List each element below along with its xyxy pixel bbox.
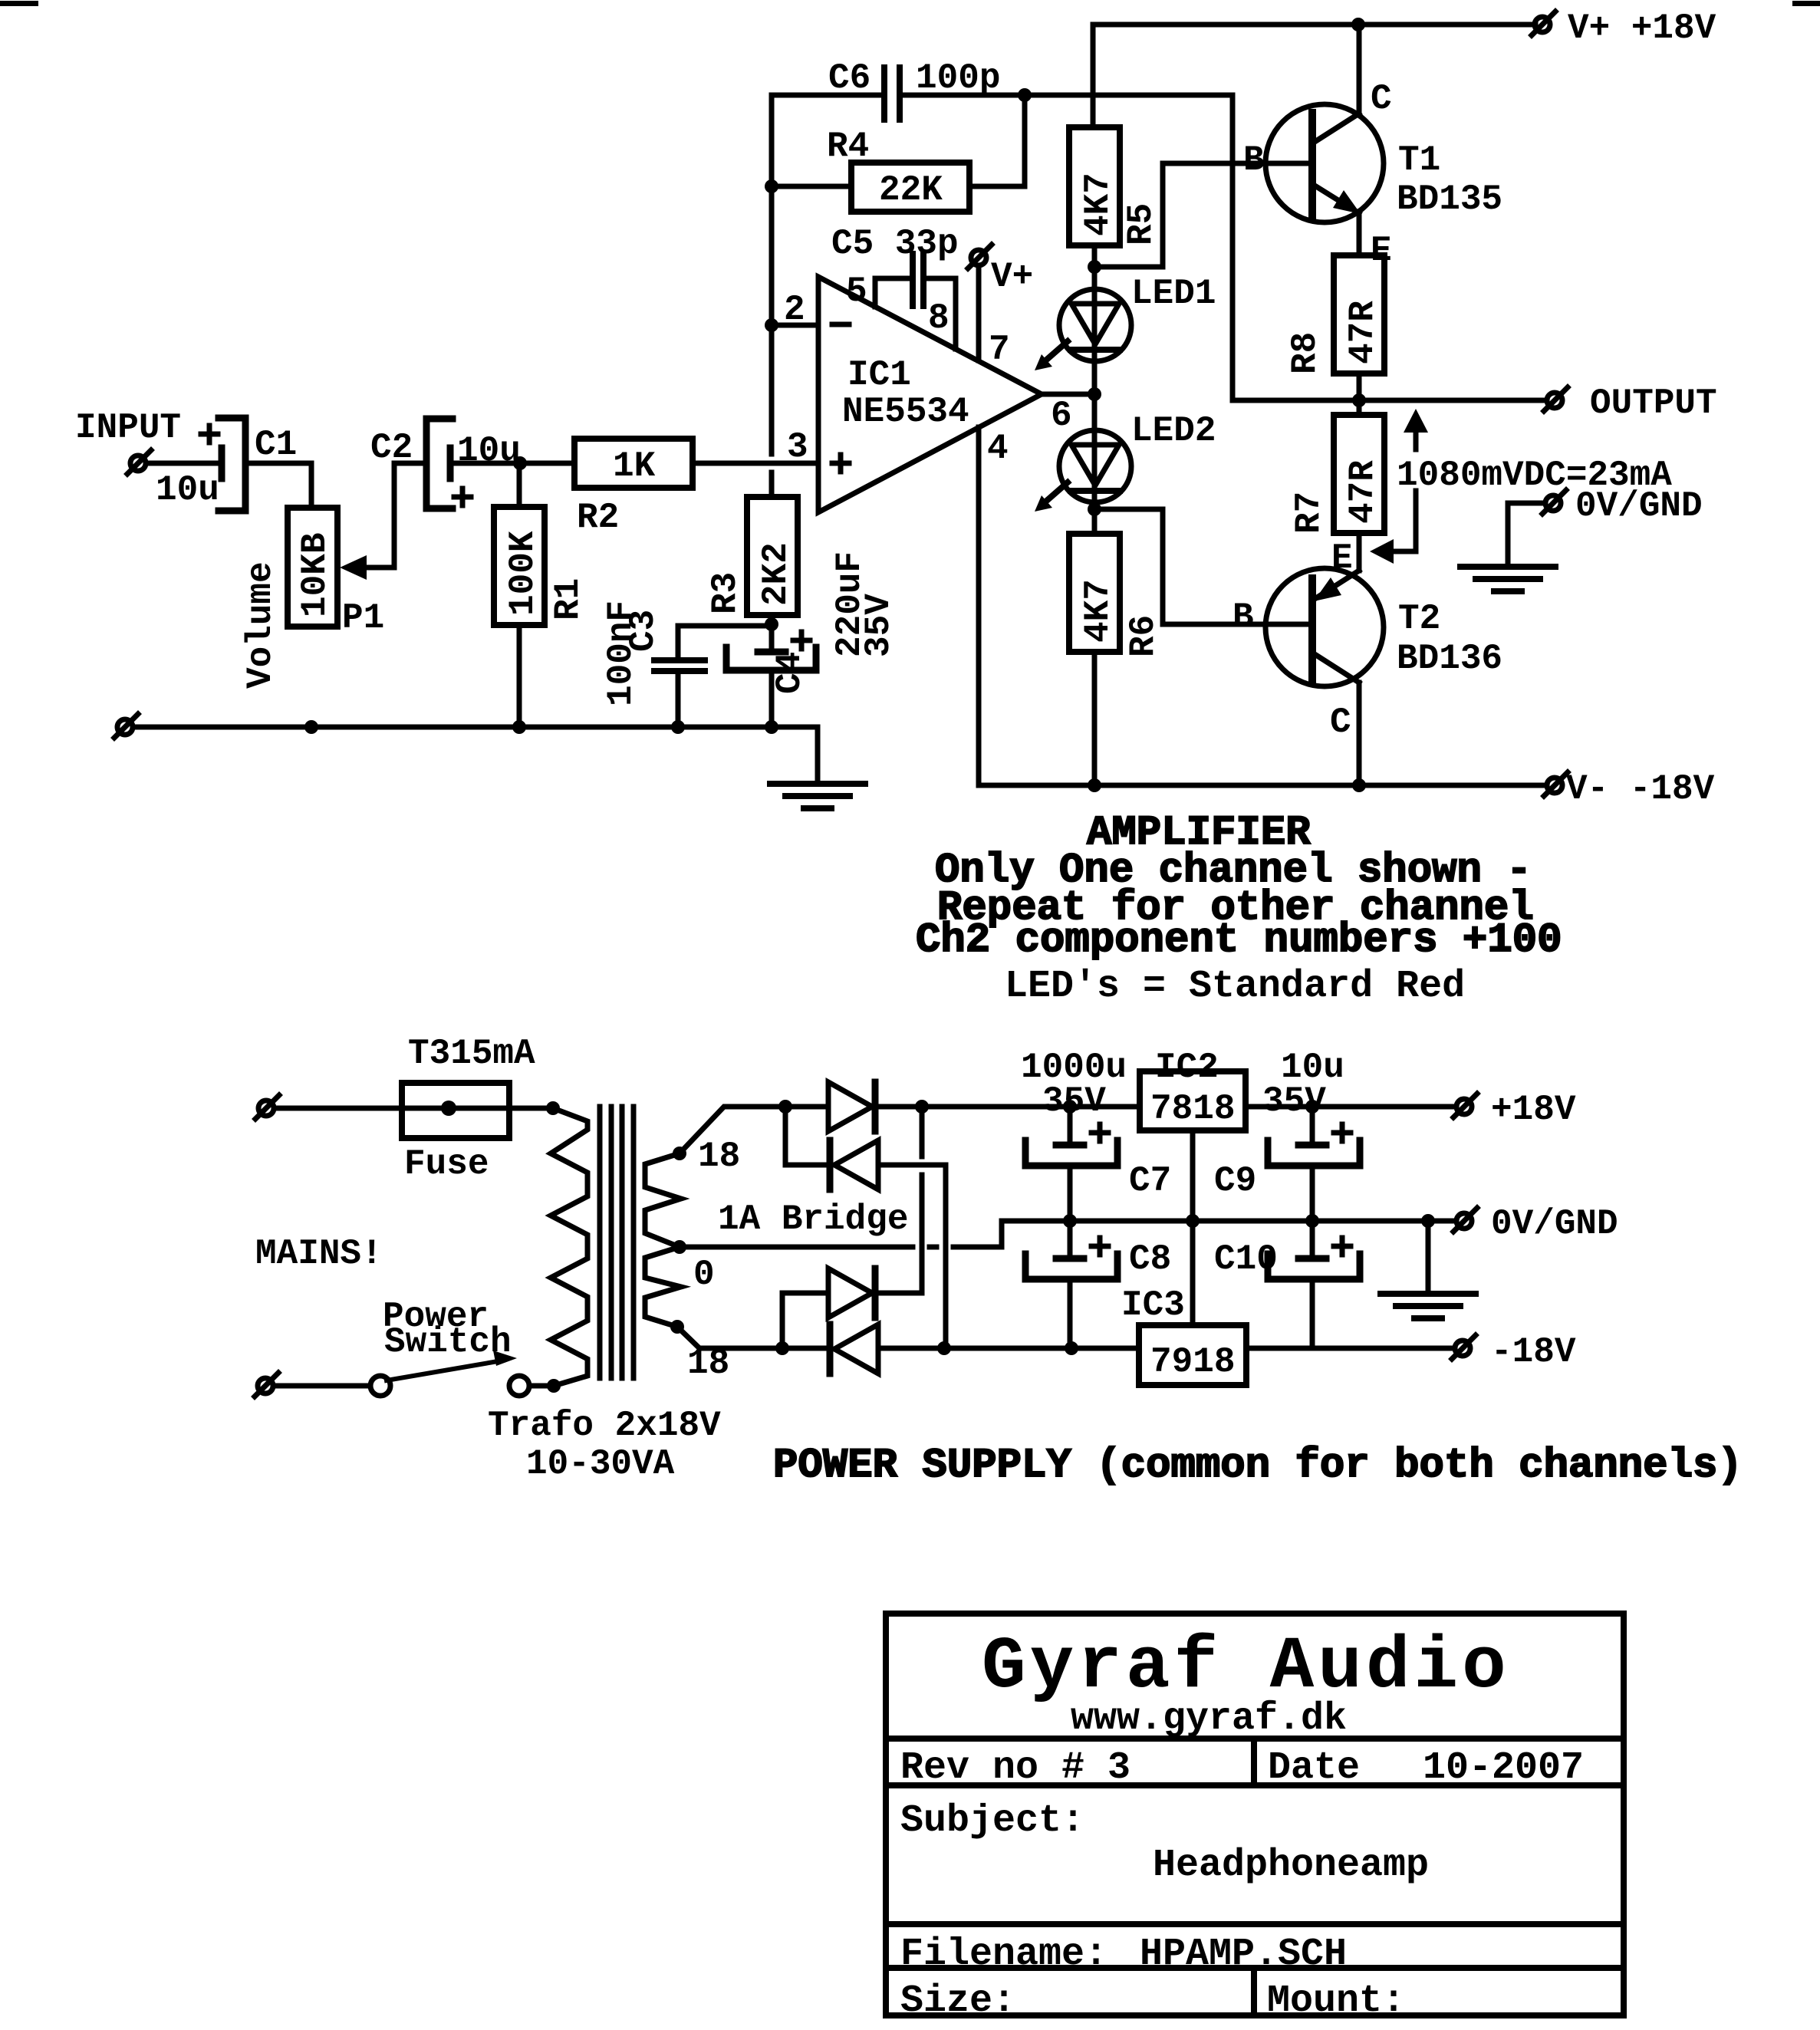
svg-text:100K: 100K [503,531,543,616]
capacitor C3 100nF [654,660,705,671]
resistor R3 2K2 [747,497,798,615]
wire T2 base [1094,509,1312,624]
junction D2 on -18V rail [937,1341,951,1355]
junction AC2 node [775,1341,789,1355]
wire ground rail [133,727,818,784]
transformer secondary winding bottom [645,1247,681,1327]
junction C3 on rail [671,720,685,734]
svg-text:B: B [1233,597,1254,637]
svg-text:Mount:: Mount: [1267,1979,1405,2023]
svg-text:R1: R1 [548,578,588,620]
wire V+ rail top [1093,22,1535,28]
svg-text:C10: C10 [1214,1239,1278,1279]
junction R3/C3/C4 node [765,617,778,631]
svg-text:OUTPUT: OUTPUT [1590,383,1717,423]
svg-text:C3: C3 [624,610,663,652]
svg-text:LED's = Standard Red: LED's = Standard Red [1005,965,1465,1008]
junction secondary 0 centre tap [673,1240,686,1254]
svg-text:10-30VA: 10-30VA [526,1444,675,1484]
wire 0V/GND to ground [1508,503,1545,567]
svg-text:INPUT: INPUT [75,408,181,448]
wire feedback to output node [1025,95,1233,400]
regulator IC2 7818 [1140,1071,1246,1130]
svg-text:R7: R7 [1289,492,1329,534]
junction node A (C2/R1/R2) [513,456,527,470]
junction transformer primary top [546,1101,560,1115]
capacitor C4 220uF (polarized) [726,624,816,727]
svg-text:3: 3 [787,427,808,467]
junction R1 on rail [512,720,526,734]
wire AC2 secondary bottom [677,1327,827,1348]
ground symbol (amp right) [1460,567,1555,591]
wire node to C3 [678,626,772,660]
wire pin 6 output [1042,392,1094,397]
wire P1 wiper to C2 [365,463,426,568]
svg-text:LED1: LED1 [1131,274,1216,314]
terminal mains live [255,1095,279,1119]
svg-text:IC1: IC1 [847,355,911,395]
svg-text:35V: 35V [1042,1081,1106,1121]
wire pin2 node down to R3 (hop over pin3 wire) [769,325,775,497]
junction R6 on V- rail [1088,778,1101,792]
wire D3 row [875,1291,922,1296]
wire +18V rail right [1246,1104,1456,1110]
svg-text:C5 33p: C5 33p [831,224,959,264]
wire feedback vertical (pin2 to R4/C6) [769,95,775,325]
svg-text:18: 18 [698,1137,740,1176]
svg-text:0V/GND: 0V/GND [1575,486,1703,526]
potentiometer P1 10KB [288,508,367,627]
terminal 0V/GND (psu) [1453,1208,1477,1232]
transistor T2 BD136 (PNP) [1265,568,1384,785]
junction T1 collector on V+ rail [1351,18,1365,31]
svg-text:V- -18V: V- -18V [1566,769,1715,809]
svg-text:R6: R6 [1124,615,1163,657]
border crop mark top-left [0,1,38,6]
wire R5 top lead [1091,25,1096,127]
svg-text:Rev no # 3: Rev no # 3 [900,1746,1131,1790]
svg-text:V+: V+ [991,257,1033,297]
svg-text:10-2007: 10-2007 [1423,1746,1584,1790]
wire C1 to P1 top [245,463,311,508]
junction LED2/R6/T2 base node [1088,502,1101,516]
svg-text:NE5534: NE5534 [842,392,969,432]
svg-text:R8: R8 [1285,332,1325,374]
capacitor C1 10u (polarized) [201,418,245,511]
svg-text:Volume: Volume [241,561,281,689]
svg-text:T315mA: T315mA [408,1034,535,1074]
svg-text:T2: T2 [1398,599,1440,639]
resistor R4 22K [851,163,969,212]
junction C9 top [1305,1100,1319,1114]
junction secondary 18 bottom [670,1320,684,1334]
capacitor C10 10u (polarized) [1268,1221,1360,1348]
wire pin 4 to V- rail [976,427,982,785]
wire gnd stem [1426,1221,1431,1294]
terminal 0V/GND (amp) [1542,490,1566,514]
transformer TR1 primary winding [551,1108,587,1386]
junction R4 left [765,179,778,193]
svg-text:BD136: BD136 [1397,639,1502,679]
wire -18V rail left [878,1346,1139,1351]
svg-text:C: C [1330,702,1351,742]
wire R5 bottom lead [1092,245,1098,290]
capacitor C7 1000u (polarized) [1025,1107,1117,1221]
capacitor C8 1000u (polarized) [1025,1221,1117,1348]
svg-text:4: 4 [987,429,1009,469]
svg-text:2: 2 [784,290,805,330]
svg-text:Headphoneamp: Headphoneamp [1153,1844,1429,1887]
svg-text:47R: 47R [1343,301,1383,364]
junction C7/C8 on 0V [1063,1214,1077,1228]
svg-text:www.gyraf.dk: www.gyraf.dk [1071,1697,1347,1741]
resistor R2 1K [574,439,693,488]
svg-text:E: E [1331,538,1353,578]
resistor R5 4K7 [1069,127,1120,245]
ground symbol (input rail) [770,784,865,808]
wire 0V rail [1070,1219,1456,1224]
svg-text:C1: C1 [255,425,297,465]
junction pin2 node [765,318,778,332]
capacitor C6 100p [884,67,900,120]
ground symbol (psu) [1381,1294,1476,1318]
svg-text:1A Bridge: 1A Bridge [718,1199,908,1239]
junction C7 top [1063,1100,1077,1114]
title block row line 2 [886,1782,1624,1788]
junction C8 on -18V rail [1065,1341,1078,1355]
terminal INPUT [127,450,151,474]
wire AC1 secondary top to bridge [680,1107,828,1153]
wire D1 cathode to +raw node [875,1104,1070,1110]
svg-text:1K: 1K [613,446,656,486]
svg-text:MAINS!: MAINS! [255,1234,383,1274]
wire R4 right vertical [1022,95,1028,186]
svg-text:C2: C2 [370,428,413,468]
svg-text:2K2: 2K2 [756,542,796,606]
svg-text:7918: 7918 [1150,1342,1235,1382]
svg-text:Fuse: Fuse [404,1144,489,1184]
svg-text:R5: R5 [1121,203,1161,245]
terminal +18V [1453,1094,1477,1117]
svg-text:7: 7 [989,330,1010,370]
wire pin 2 stub [772,323,818,328]
svg-text:4K7: 4K7 [1078,173,1118,236]
junction C4 on rail [765,720,778,734]
title block divider rev/date [1251,1739,1257,1785]
annotation arrow up (output current) [1404,409,1428,449]
transformer core [600,1107,634,1378]
wire R2 to pin 3 [693,461,818,466]
junction P1 on rail [304,720,318,734]
wire R4 right lead [969,184,1025,189]
wire D3 anode to AC2 [782,1293,828,1348]
svg-text:22K: 22K [879,170,943,210]
terminal V+ (pin 7) [968,245,992,268]
svg-text:R4: R4 [827,127,869,166]
junction +raw node [915,1100,929,1114]
terminal V+ +18V [1532,12,1555,35]
wire switch to primary bottom [529,1383,554,1389]
terminal V- -18V [1544,772,1568,796]
diode D3 [828,1268,875,1318]
svg-text:R2: R2 [577,498,619,538]
resistor R1 100K [494,507,545,625]
junction pin6/LED node [1088,387,1101,401]
svg-text:35V: 35V [1262,1081,1326,1121]
wire regulator ground pins [1190,1130,1196,1325]
svg-text:Date: Date [1268,1746,1360,1790]
wire R3 to C4/C3 node [769,615,775,626]
svg-text:Filename:: Filename: [900,1933,1107,1976]
svg-text:HPAMP.SCH: HPAMP.SCH [1140,1933,1347,1976]
wire T1 base [1094,163,1312,267]
svg-text:C6: C6 [828,58,871,98]
svg-text:100p: 100p [916,58,1000,98]
switch S1 power switch [370,1351,529,1396]
wire R7 to T2 emitter [1357,533,1362,571]
capacitor C2 10u (polarized) [426,419,471,508]
svg-text:35V: 35V [859,594,899,657]
junction secondary 18 top [673,1147,686,1160]
svg-text:Subject:: Subject: [900,1799,1084,1843]
svg-text:6: 6 [1051,396,1072,436]
wire R6 bottom lead [1092,652,1098,785]
wire AC1 down to D2 [785,1107,827,1165]
annotation arrow left (emitter node) [1370,491,1416,564]
wire node A down to R1 [517,463,522,507]
wire +raw vertical to D3 (hop over D2 wire) [920,1107,925,1293]
fuse F1 [402,1083,553,1138]
svg-text:5: 5 [846,271,867,311]
svg-text:C: C [1371,79,1392,119]
wire R8 to output node [1357,373,1362,415]
wire input to C1 [146,461,219,466]
title block row line 3 [886,1921,1624,1927]
svg-text:R3: R3 [706,572,745,614]
svg-text:IC3: IC3 [1121,1285,1185,1325]
svg-text:8: 8 [928,298,949,338]
svg-text:10u: 10u [156,470,219,510]
terminal mains neutral [255,1373,278,1397]
svg-text:0: 0 [693,1255,715,1295]
junction output node [1352,393,1366,407]
svg-text:Gyraf Audio: Gyraf Audio [982,1625,1510,1709]
LED LED1 [1035,289,1131,394]
capacitor C5 33p [875,254,956,349]
wire C3 to ground rail [676,671,681,727]
svg-text:POWER SUPPLY (common for both: POWER SUPPLY (common for both channels) [773,1443,1743,1489]
wire R4 left lead [772,184,851,189]
transformer secondary winding top [645,1153,681,1247]
resistor R6 4K7 [1069,534,1120,652]
terminal input ground [114,714,138,738]
svg-text:4K7: 4K7 [1078,579,1118,643]
diode D4 [830,1324,878,1374]
svg-text:E: E [1371,231,1392,271]
wire mains to switch [273,1383,370,1389]
svg-text:IC2: IC2 [1155,1048,1219,1087]
wire pin 7 [976,265,982,360]
wire mains to fuse [274,1106,402,1111]
svg-text:47R: 47R [1343,460,1383,524]
wire R6 top lead [1092,509,1098,534]
svg-text:0V/GND: 0V/GND [1491,1204,1618,1244]
LED LED2 [1035,394,1131,512]
regulator IC3 7918 [1139,1325,1246,1385]
svg-text:+18V: +18V [1491,1090,1576,1130]
svg-text:P1: P1 [342,598,384,638]
capacitor C9 10u (polarized) [1268,1107,1360,1221]
svg-text:7818: 7818 [1150,1089,1235,1129]
svg-text:Size:: Size: [900,1979,1015,2023]
svg-text:Trafo 2x18V: Trafo 2x18V [488,1406,721,1446]
wire C2 to node A [450,461,574,466]
svg-text:C9: C9 [1214,1161,1256,1201]
wire centre tap to 0V (hops over bridge verticals) [686,1221,1070,1247]
title block row line 1 [886,1736,1624,1742]
svg-text:C7: C7 [1129,1161,1171,1201]
title block frame [886,1614,1624,2015]
transistor T1 BD135 (NPN) [1265,25,1384,255]
terminal OUTPUT [1544,387,1568,411]
svg-text:10KB: 10KB [295,533,335,617]
wire output node to terminal [1233,398,1547,403]
resistor R7 47R [1334,415,1384,533]
junction regulators gnd on 0V [1186,1214,1200,1228]
svg-text:T1: T1 [1398,140,1440,180]
svg-text:-18V: -18V [1491,1332,1576,1372]
svg-text:Ch2 component numbers +100: Ch2 component numbers +100 [916,917,1562,964]
wire R1 to ground rail [517,625,522,727]
terminal -18V [1452,1335,1476,1359]
op-amp IC1 NE5534 triangle [818,277,1042,512]
junction C6/R4 node [1018,88,1032,102]
wire D2 anode to -raw vertical [878,1165,946,1348]
svg-text:Switch: Switch [384,1322,512,1362]
diode D2 [830,1140,878,1189]
wire +18V rail left [1070,1104,1140,1110]
svg-text:C8: C8 [1129,1239,1171,1279]
junction C9/C10 on 0V [1305,1214,1319,1228]
junction R5/LED1/T1 base node [1088,260,1101,274]
svg-text:BD135: BD135 [1397,179,1502,219]
title block divider size/mount [1251,1968,1257,2015]
svg-text:LED2: LED2 [1131,411,1216,451]
svg-text:V+ +18V: V+ +18V [1568,8,1716,48]
junction transformer primary bottom [547,1379,561,1393]
wire C6 left segment [772,93,882,98]
svg-text:C4: C4 [770,652,810,694]
wire C6 right segment [902,93,1025,98]
border crop mark top-right [1792,1,1820,6]
svg-text:B: B [1243,140,1265,180]
title block row line 4 [886,1965,1624,1971]
resistor R8 47R [1334,255,1384,373]
diode D1 [828,1082,875,1131]
wire V- rail [979,783,1547,788]
wire -18V rail right [1246,1346,1455,1351]
junction gnd stem on 0V [1421,1214,1435,1228]
junction T2 collector on V- rail [1352,778,1366,792]
junction AC1 node [778,1100,792,1114]
